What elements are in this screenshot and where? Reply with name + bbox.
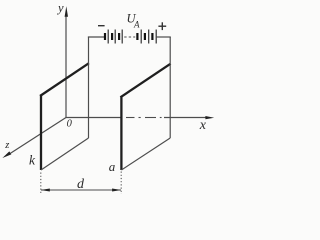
wire from left plate to battery — [88, 37, 104, 64]
left plate (cathode k) — [40, 63, 89, 170]
extension line below plate k — [40, 173, 42, 195]
wire from battery to right plate — [156, 37, 171, 64]
dashed link between cell groups — [124, 36, 135, 38]
right plate (anode a) — [120, 64, 170, 170]
svg-text:z: z — [4, 140, 9, 151]
label U_A — [127, 12, 141, 30]
svg-text:y: y — [56, 1, 64, 15]
svg-text:d: d — [77, 177, 85, 192]
battery U_A left cell group — [105, 30, 122, 44]
extension line below plate a — [120, 172, 122, 195]
dimension line d — [41, 189, 122, 192]
minus terminal label — [98, 25, 105, 27]
z axis — [2, 118, 66, 159]
svg-text:x: x — [199, 118, 207, 133]
plus terminal label — [158, 22, 166, 30]
y axis — [65, 6, 68, 117]
svg-text:k: k — [29, 153, 36, 168]
svg-text:a: a — [109, 159, 116, 174]
svg-text:0: 0 — [67, 119, 73, 130]
x axis — [66, 116, 214, 119]
svg-text:A: A — [133, 20, 140, 30]
battery U_A right cell group — [137, 30, 156, 44]
